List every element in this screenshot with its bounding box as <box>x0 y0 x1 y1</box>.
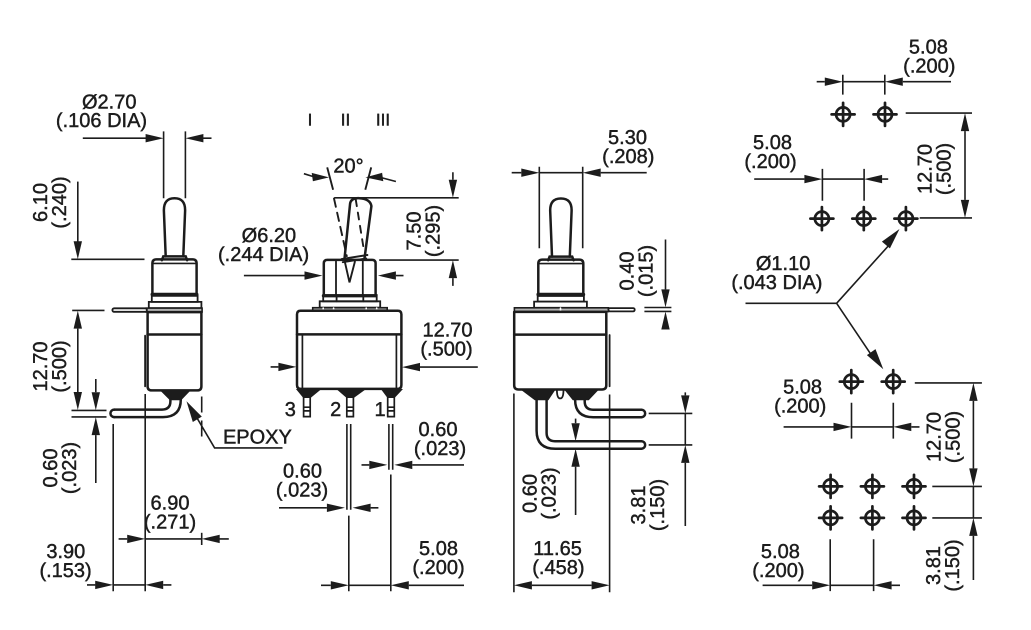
dim Ø2.70 line + arrows <box>83 137 212 139</box>
body section line <box>297 333 401 336</box>
epoxy seal pin2 <box>338 390 364 398</box>
lever base flare <box>162 256 187 260</box>
ext line x=145 (6.90/3.90) <box>144 394 146 591</box>
ring 2 <box>149 302 202 308</box>
hole B2 <box>882 370 905 393</box>
locknut dark band <box>538 293 583 296</box>
dim 7.50 arrows <box>452 172 454 286</box>
hex ring <box>323 295 377 301</box>
hole B7 <box>861 506 884 529</box>
mounting plate (gray, edge on) <box>514 308 608 312</box>
angle arrows <box>304 174 396 182</box>
toggle lever side <box>164 198 185 256</box>
dim 11.65 ext lines <box>514 394 610 593</box>
svg-text:3: 3 <box>285 399 296 421</box>
hole B1 <box>840 370 863 393</box>
hole B6 <box>819 506 842 529</box>
hole A3 <box>810 207 833 230</box>
epoxy seal pin1 <box>382 390 402 398</box>
dim 0.60 arrows <box>95 379 97 392</box>
dim 12.70 lower ext lines <box>915 383 982 487</box>
dim 6.10 line + arrow + tick <box>77 182 79 242</box>
dim Ø2.70 ext lines <box>164 131 186 198</box>
lever dashed alternate position <box>334 199 347 257</box>
pin1 ext lines <box>389 424 393 591</box>
locknut dark band <box>152 293 197 296</box>
dim 12.70 line + arrows <box>77 329 79 392</box>
svg-text:(.023): (.023) <box>59 442 81 494</box>
svg-text:(.106 DIA): (.106 DIA) <box>56 110 147 132</box>
pin 3 <box>304 397 311 416</box>
svg-text:2: 2 <box>330 399 341 421</box>
dim Ø6.20 arrows <box>244 275 404 277</box>
mounting plate (gray, edge on) <box>146 308 202 312</box>
bushing top edge <box>326 259 374 261</box>
svg-text:(.153): (.153) <box>39 560 91 582</box>
plate notches <box>323 308 377 311</box>
svg-text:(.500): (.500) <box>49 340 71 392</box>
svg-text:(.200): (.200) <box>412 557 464 579</box>
EPOXY leader + arrow <box>196 417 282 448</box>
body section line <box>514 333 606 336</box>
svg-text:(.271): (.271) <box>144 512 196 534</box>
dim 5.08 bottom line + arrows + ticks <box>763 584 900 586</box>
svg-text:(.023): (.023) <box>414 438 466 460</box>
hole A5 <box>894 207 917 230</box>
epoxy seal front (black) <box>565 390 598 400</box>
epoxy seal rear (black) <box>522 390 555 400</box>
bushing <box>538 260 583 294</box>
hole B8 <box>903 506 926 529</box>
bushing <box>152 259 196 293</box>
toggle lever side <box>550 199 571 257</box>
svg-text:(.200): (.200) <box>903 55 955 77</box>
ext line x=113.2 (3.90) <box>112 424 114 591</box>
dim 6.90 line + arrows <box>119 538 229 540</box>
ext dashed x=201.7 <box>201 397 203 438</box>
ring 2 <box>534 302 587 308</box>
ring 1 <box>152 296 198 302</box>
seal notch <box>557 390 564 399</box>
leader Ø1.10 <box>746 244 890 356</box>
pin thickness ticks <box>72 410 107 417</box>
svg-text:III: III <box>376 110 390 129</box>
svg-text:(.295): (.295) <box>423 205 445 257</box>
dim 5.08 line + arrows <box>321 584 464 586</box>
dim 11.65 line + arrows <box>532 584 592 586</box>
svg-text:(.458): (.458) <box>532 557 584 579</box>
dim 0.60 arrows (pin gap) <box>575 419 577 424</box>
mounting plate (gray) <box>313 308 388 311</box>
body inner edges <box>302 334 396 388</box>
front pin (upper) <box>585 400 642 410</box>
body <box>514 312 606 390</box>
lever base flare <box>548 257 573 261</box>
pin2 ext lines <box>347 424 351 591</box>
epoxy seal (black) <box>161 391 189 400</box>
svg-text:EPOXY: EPOXY <box>223 426 292 448</box>
dim 5.08 lower line + arrows + ticks <box>784 426 920 428</box>
svg-text:20°: 20° <box>333 156 363 178</box>
locknut dark band <box>323 294 376 297</box>
bushing flat lines <box>336 261 363 294</box>
body <box>148 312 202 390</box>
svg-text:(.200): (.200) <box>744 151 796 173</box>
hole A2 <box>874 103 897 126</box>
dim 0.40 arrows + ticks <box>665 240 667 290</box>
dim 3.81 line + arrows <box>684 392 686 526</box>
body side plate edge <box>609 335 611 386</box>
svg-text:(.043 DIA): (.043 DIA) <box>731 272 822 294</box>
svg-text:1: 1 <box>374 399 385 421</box>
lever solid tilted right <box>345 198 372 258</box>
dim 12.70 top ext lines <box>906 113 972 218</box>
body front <box>297 311 401 389</box>
hole A4 <box>852 207 875 230</box>
svg-text:(.150): (.150) <box>647 479 669 531</box>
hole B5 <box>903 475 926 498</box>
svg-text:(.023): (.023) <box>276 480 328 502</box>
lever base flare lines <box>342 255 368 262</box>
svg-text:(.500): (.500) <box>934 143 956 195</box>
svg-text:(.200): (.200) <box>752 560 804 582</box>
dim 3.81 pin center ticks <box>649 413 693 445</box>
svg-text:(.244 DIA): (.244 DIA) <box>218 244 309 266</box>
plate notch <box>560 308 562 311</box>
svg-text:I: I <box>308 110 313 129</box>
hole B4 <box>861 475 884 498</box>
hole A1 <box>832 103 855 126</box>
dim 7.50 ext lines <box>334 198 459 260</box>
rear pin (lower) <box>547 400 642 442</box>
lever V inside bushing <box>345 262 355 283</box>
svg-text:(.015): (.015) <box>636 245 658 297</box>
dim 5.30 line + arrows <box>512 172 647 174</box>
dim 3.90 line + arrows <box>87 584 171 586</box>
svg-text:II: II <box>341 110 350 129</box>
svg-text:(.240): (.240) <box>49 176 71 228</box>
epoxy seal pin3 <box>297 390 320 398</box>
plate keyway tab (left) <box>112 308 146 312</box>
angle ticks <box>327 167 371 189</box>
hole B3 <box>819 475 842 498</box>
svg-text:(.500): (.500) <box>943 411 965 463</box>
pin 2 <box>347 397 354 416</box>
dim 5.08 mid line + arrows + ticks <box>754 178 888 180</box>
dim 12.70 lower line + arrows <box>972 401 974 469</box>
tick x=201.7 for 6.90 <box>201 533 203 545</box>
bushing front <box>324 260 376 295</box>
ring 1 <box>538 296 584 302</box>
bent pin <box>114 399 170 409</box>
body side plate edge <box>144 336 146 387</box>
svg-text:(.200): (.200) <box>774 396 826 418</box>
pin 1 <box>388 397 395 416</box>
plate tab (right) <box>608 308 634 311</box>
ring 2 <box>320 301 381 307</box>
dim 3.81 ext line + segment + arrow <box>932 486 982 580</box>
dim 5.30 ext lines <box>539 167 582 249</box>
svg-text:(.208): (.208) <box>602 146 654 168</box>
dim 0.60 left line + arrows <box>279 507 378 509</box>
dim 5.08 top line + arrows + ticks <box>817 81 951 83</box>
svg-text:(.023): (.023) <box>539 467 561 519</box>
body section line <box>148 333 202 336</box>
dim 12.70 top line + arrows <box>964 131 966 200</box>
dim 0.60 right line + arrows <box>362 464 465 466</box>
dim 12.70 tick top <box>72 309 104 311</box>
dim 12.70 arrows <box>271 366 478 368</box>
svg-text:(.150): (.150) <box>942 539 964 591</box>
svg-text:(.500): (.500) <box>420 339 472 361</box>
